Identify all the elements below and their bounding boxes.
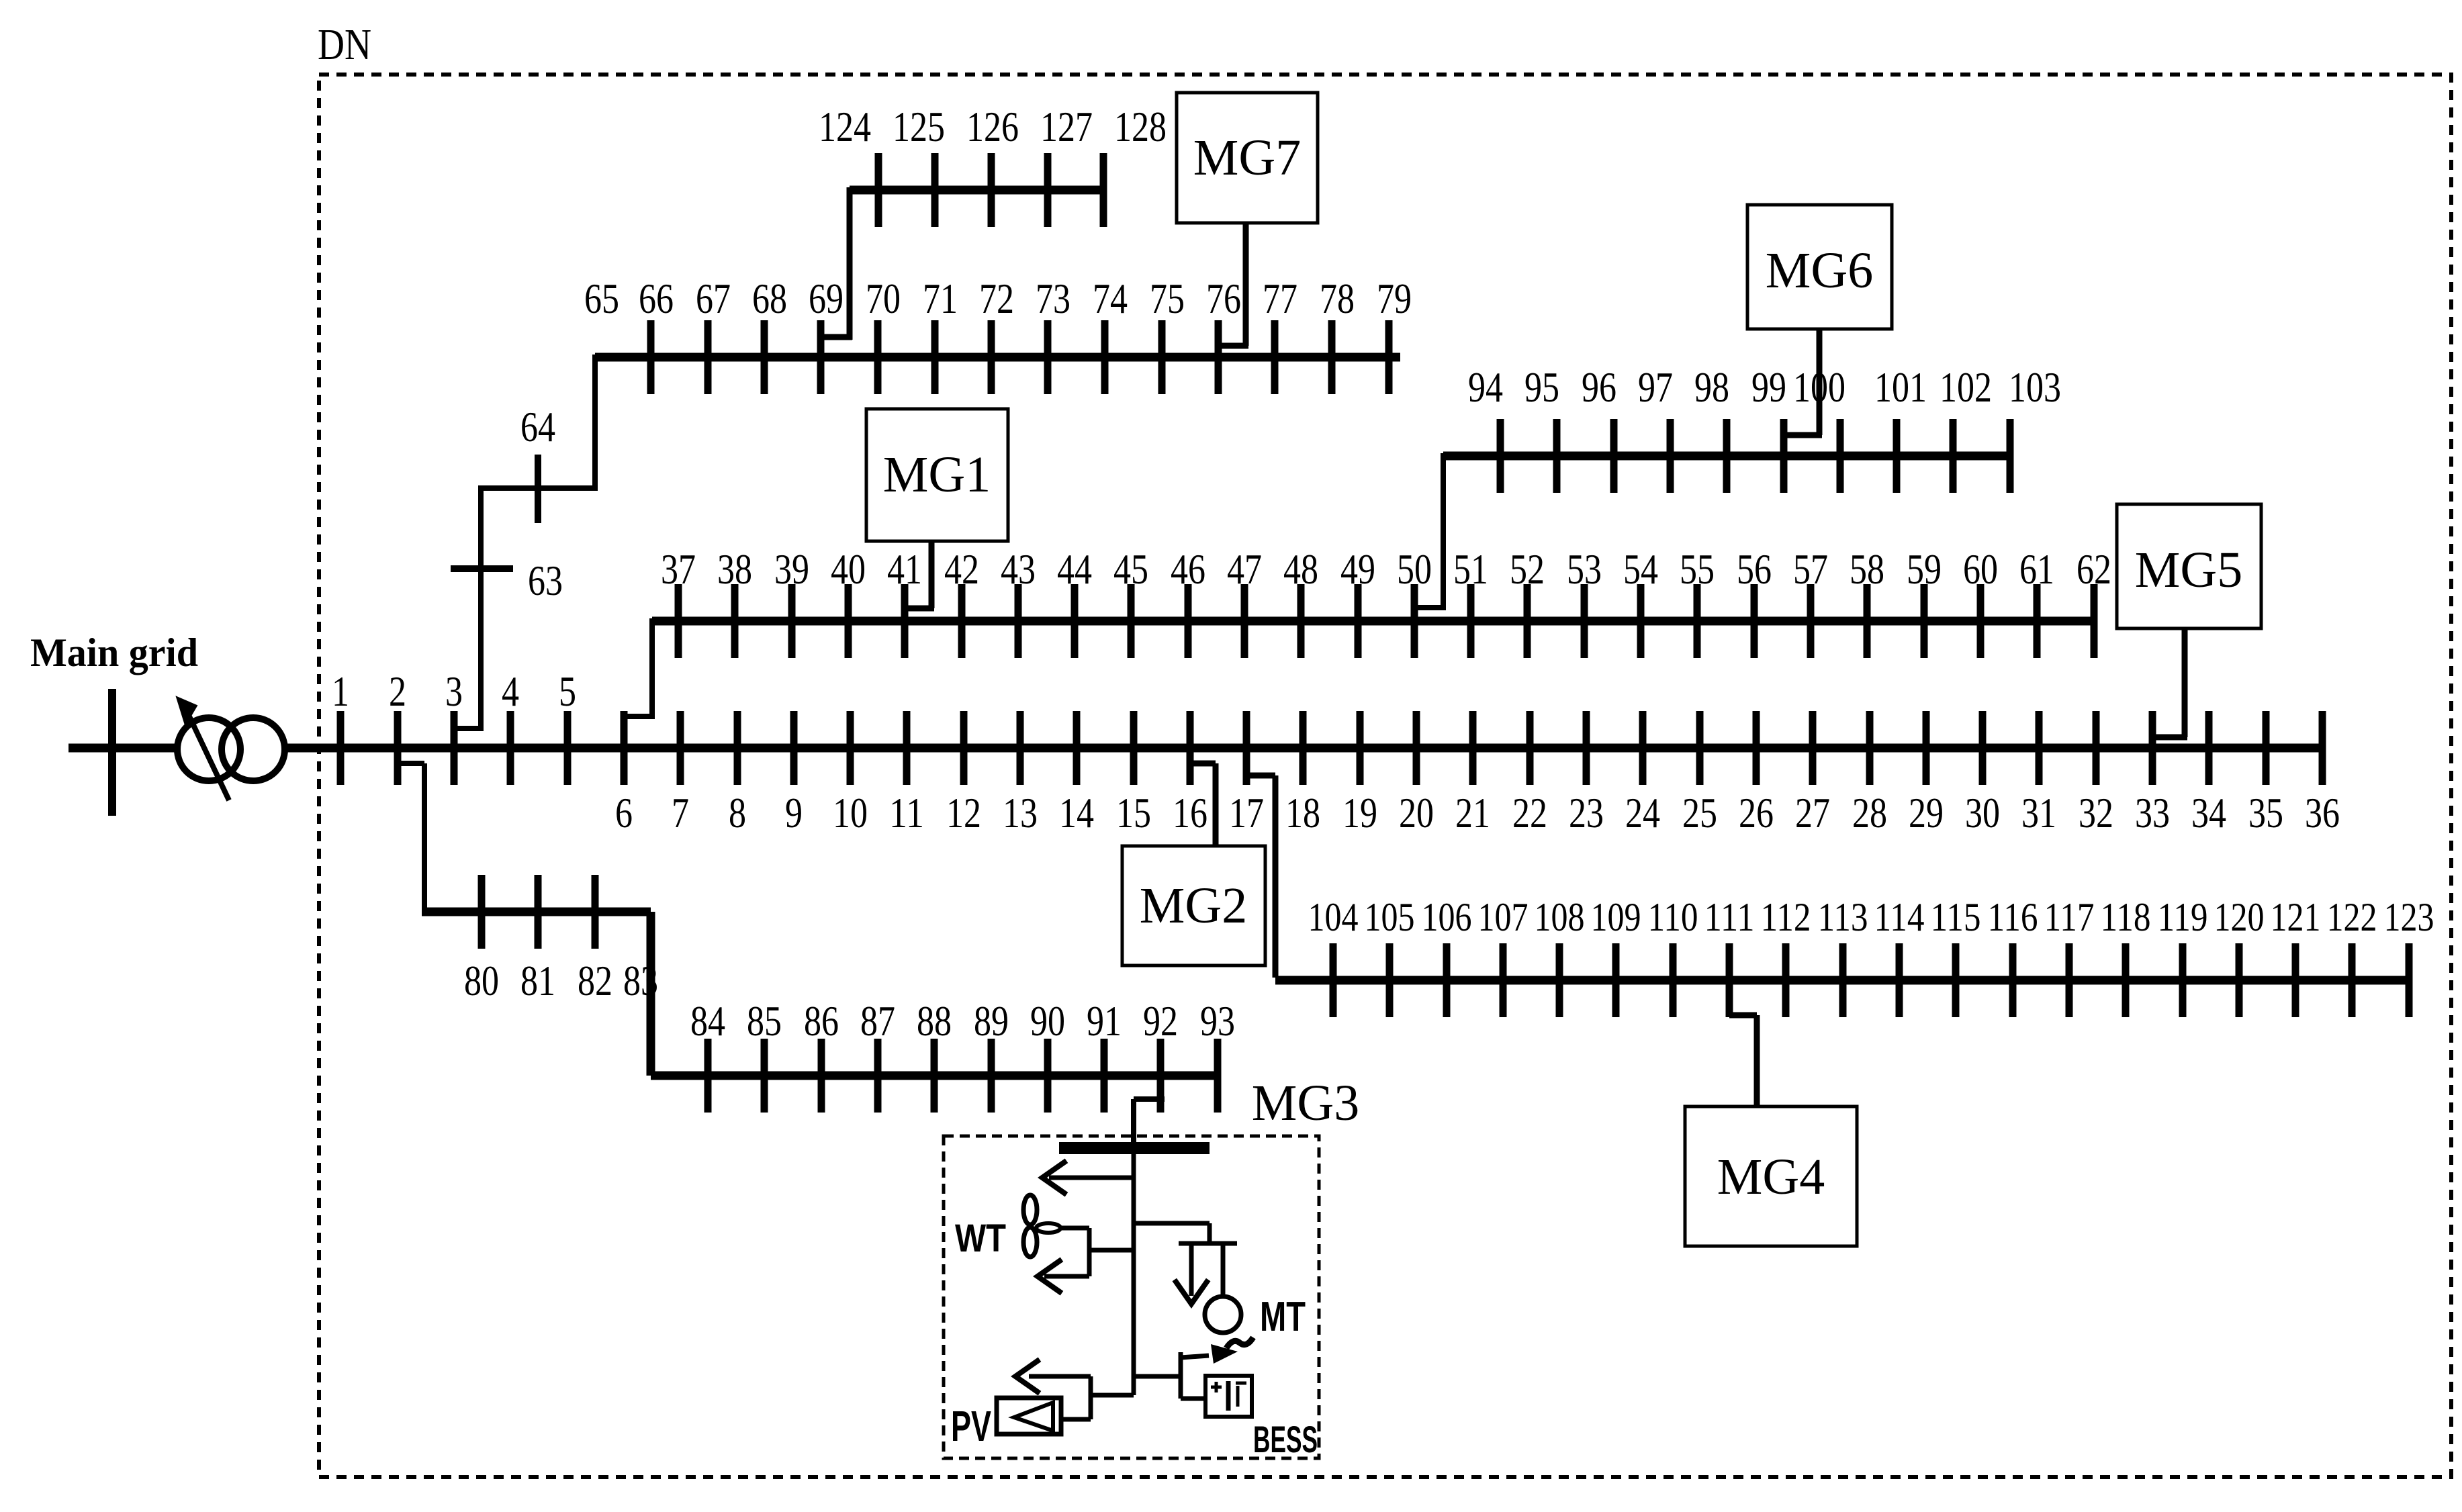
svg-text:27: 27 xyxy=(1795,789,1830,837)
bus tick node 6 xyxy=(621,711,628,785)
svg-text:123: 123 xyxy=(2384,895,2434,939)
PV output arrow xyxy=(1029,1374,1091,1379)
bus tick node 81 xyxy=(535,875,542,949)
bus tick node 104 xyxy=(1330,943,1337,1017)
svg-text:MG5: MG5 xyxy=(2135,542,2242,598)
bus tick node 69 xyxy=(817,320,825,394)
bus tick node 88 xyxy=(931,1039,938,1113)
bus tick node 1 xyxy=(337,711,345,785)
bus tick node 52 xyxy=(1524,584,1531,658)
bus tick node 36 xyxy=(2319,711,2326,785)
bus tick node 50 xyxy=(1411,584,1418,658)
microgrid MG6 box xyxy=(1747,205,1892,329)
wire node 92 jog to MG3 drop xyxy=(1134,1096,1165,1102)
svg-text:65: 65 xyxy=(584,275,619,322)
svg-text:51: 51 xyxy=(1453,545,1488,593)
bus tick node 51 xyxy=(1467,584,1475,658)
svg-text:66: 66 xyxy=(639,275,674,322)
wire drop node 17 to bus 104 xyxy=(1273,775,1279,978)
MT branch tee bar xyxy=(1179,1241,1237,1246)
bus tick node 8 xyxy=(734,711,741,785)
wire feeder bus nodes 124-128 xyxy=(850,186,1103,195)
bus tick node 120 xyxy=(2236,943,2243,1017)
svg-text:25: 25 xyxy=(1682,789,1717,837)
bus tick node 112 xyxy=(1782,943,1790,1017)
bus tick node 127 xyxy=(1044,153,1052,227)
bus tick node 76 xyxy=(1215,320,1222,394)
wire node 3 jog to riser xyxy=(454,726,481,731)
bus tick node 4 xyxy=(507,711,514,785)
bus tick node 103 xyxy=(2007,419,2014,493)
bus tick node 62 xyxy=(2091,584,2098,658)
wire node 50 jog to riser xyxy=(1413,605,1443,610)
bus tick node 40 xyxy=(845,584,852,658)
bus tick node 19 xyxy=(1357,711,1364,785)
bus tick node 128 xyxy=(1100,153,1107,227)
svg-text:43: 43 xyxy=(1001,545,1036,593)
wind turbine WT blades xyxy=(1023,1195,1037,1225)
bus tick node 45 xyxy=(1128,584,1135,658)
bus tick node 78 xyxy=(1328,320,1336,394)
bus tick node 30 xyxy=(1979,711,1987,785)
svg-text:103: 103 xyxy=(2009,363,2061,411)
svg-text:61: 61 xyxy=(2019,545,2054,593)
svg-text:23: 23 xyxy=(1569,789,1604,837)
svg-text:20: 20 xyxy=(1399,789,1434,837)
svg-text:97: 97 xyxy=(1638,363,1673,411)
bus tick node 13 xyxy=(1017,711,1024,785)
bus tick node 11 xyxy=(903,711,911,785)
bus tick node 115 xyxy=(1952,943,1960,1017)
svg-text:99: 99 xyxy=(1751,363,1786,411)
bus tick node 67 xyxy=(704,320,712,394)
wire feeder bus nodes 104-123 xyxy=(1275,976,2409,985)
svg-text:30: 30 xyxy=(1965,789,2000,837)
svg-text:60: 60 xyxy=(1963,545,1998,593)
svg-text:17: 17 xyxy=(1229,789,1264,837)
svg-text:MG6: MG6 xyxy=(1766,242,1873,299)
bus tick node 93 xyxy=(1214,1039,1222,1113)
svg-text:76: 76 xyxy=(1206,275,1241,322)
svg-text:53: 53 xyxy=(1567,545,1602,593)
bus tick node 121 xyxy=(2292,943,2299,1017)
svg-text:126: 126 xyxy=(966,103,1019,150)
bus tick node 5 xyxy=(564,711,572,785)
svg-text:24: 24 xyxy=(1625,789,1660,837)
microgrid MG5 box xyxy=(2117,504,2261,628)
svg-text:120: 120 xyxy=(2214,895,2265,939)
bus tick node 119 xyxy=(2179,943,2187,1017)
bus tick node 57 xyxy=(1807,584,1815,658)
wire feeder bus nodes 84-93 xyxy=(651,1072,1218,1080)
wire MG7 drop to node 76 xyxy=(1243,223,1249,346)
svg-text:MG3: MG3 xyxy=(1252,1075,1359,1131)
svg-text:91: 91 xyxy=(1087,997,1122,1045)
svg-text:96: 96 xyxy=(1582,363,1616,411)
svg-text:110: 110 xyxy=(1648,895,1698,939)
bus tick node 117 xyxy=(2066,943,2073,1017)
svg-text:11: 11 xyxy=(889,789,924,837)
svg-text:85: 85 xyxy=(747,997,782,1045)
svg-text:14: 14 xyxy=(1059,789,1094,837)
svg-text:15: 15 xyxy=(1116,789,1151,837)
bus tick node 66 xyxy=(647,320,655,394)
svg-text:63: 63 xyxy=(528,557,563,604)
svg-text:125: 125 xyxy=(893,103,945,150)
svg-text:4: 4 xyxy=(502,667,519,715)
svg-text:87: 87 xyxy=(860,997,895,1045)
wire main grid to transformer xyxy=(69,744,179,753)
svg-text:29: 29 xyxy=(1909,789,1944,837)
svg-text:DN: DN xyxy=(318,20,371,69)
svg-text:71: 71 xyxy=(923,275,958,322)
svg-text:22: 22 xyxy=(1512,789,1547,837)
wire WT corner vertical xyxy=(1087,1228,1092,1276)
svg-text:115: 115 xyxy=(1931,895,1981,939)
svg-text:48: 48 xyxy=(1283,545,1318,593)
svg-text:81: 81 xyxy=(520,957,555,1004)
wire main feeder bus nodes 3-36 xyxy=(454,744,2325,753)
svg-text:44: 44 xyxy=(1057,545,1092,593)
microturbine MT generator circle xyxy=(1205,1296,1241,1333)
svg-text:MT: MT xyxy=(1260,1294,1306,1340)
svg-text:2: 2 xyxy=(389,667,406,715)
wire PV box link xyxy=(1061,1417,1091,1422)
bus tick node 92 xyxy=(1157,1039,1165,1113)
bus tick node 90 xyxy=(1044,1039,1052,1113)
bus tick node 9 xyxy=(790,711,798,785)
bus tick node 2 xyxy=(394,711,402,785)
bus tick node 87 xyxy=(874,1039,882,1113)
svg-text:26: 26 xyxy=(1739,789,1774,837)
wire node 69 jog to riser of 124-128 lateral xyxy=(820,334,852,340)
svg-text:118: 118 xyxy=(2101,895,2151,939)
bus tick node 41 xyxy=(901,584,909,658)
main grid bus bar xyxy=(108,689,116,816)
svg-text:111: 111 xyxy=(1704,895,1755,939)
bus tick node 47 xyxy=(1241,584,1248,658)
bus tick node 105 xyxy=(1386,943,1394,1017)
bus tick node 34 xyxy=(2205,711,2213,785)
bus tick node 20 xyxy=(1413,711,1420,785)
svg-text:7: 7 xyxy=(672,789,689,837)
wire corner node 83 drop to bus 84 xyxy=(647,912,655,1076)
wire riser to 124-128 bus xyxy=(847,187,853,340)
svg-text:79: 79 xyxy=(1377,275,1412,322)
bus tick node 53 xyxy=(1581,584,1588,658)
svg-text:PV: PV xyxy=(951,1402,991,1450)
bus tick node 124 xyxy=(875,153,882,227)
wire riser node 6 to bus 37 xyxy=(649,618,655,719)
svg-text:BESS: BESS xyxy=(1253,1418,1318,1460)
svg-text:10: 10 xyxy=(833,789,868,837)
bus tick node 55 xyxy=(1694,584,1701,658)
svg-text:94: 94 xyxy=(1468,363,1503,411)
bus tick node 10 xyxy=(847,711,854,785)
svg-text:33: 33 xyxy=(2135,789,2170,837)
svg-text:19: 19 xyxy=(1342,789,1377,837)
bus tick node 101 xyxy=(1893,419,1901,493)
MT load arrow down xyxy=(1189,1243,1194,1296)
wire MG6 jog to node 100 tick xyxy=(1783,432,1822,438)
svg-text:107: 107 xyxy=(1478,895,1529,939)
svg-text:84: 84 xyxy=(690,997,725,1045)
bus tick node 95 xyxy=(1553,419,1561,493)
MG3 busbar xyxy=(1059,1142,1210,1154)
svg-text:49: 49 xyxy=(1340,545,1375,593)
bus tick node 85 xyxy=(761,1039,768,1113)
wire BESS riser xyxy=(1179,1352,1183,1399)
wire WT hub to corner xyxy=(1060,1226,1089,1231)
svg-text:64: 64 xyxy=(520,403,555,451)
wire node 6 jog to riser xyxy=(623,714,652,719)
svg-text:106: 106 xyxy=(1422,895,1472,939)
svg-text:MG1: MG1 xyxy=(883,446,991,503)
wire riser node 64 corner to bus 65 xyxy=(592,355,598,491)
svg-text:117: 117 xyxy=(2044,895,2095,939)
wire BESS riser to battery xyxy=(1181,1397,1205,1401)
bus tick node 102 xyxy=(1950,419,1957,493)
bus tick node 31 xyxy=(2036,711,2043,785)
svg-text:MG2: MG2 xyxy=(1140,878,1247,934)
svg-text:90: 90 xyxy=(1030,997,1065,1045)
transformer T1 regulation arrow xyxy=(188,714,229,800)
svg-text:68: 68 xyxy=(752,275,787,322)
svg-text:119: 119 xyxy=(2158,895,2208,939)
bus tick node 109 xyxy=(1612,943,1620,1017)
bus tick node 54 xyxy=(1637,584,1645,658)
bus tick node 96 xyxy=(1610,419,1618,493)
svg-text:105: 105 xyxy=(1365,895,1415,939)
microgrid MG3 dashed box xyxy=(944,1136,1319,1458)
bus tick node 118 xyxy=(2122,943,2130,1017)
battery plus sign xyxy=(1211,1386,1222,1389)
svg-text:54: 54 xyxy=(1623,545,1658,593)
bus tick node 17 xyxy=(1243,711,1250,785)
bus tick node 98 xyxy=(1723,419,1731,493)
svg-text:46: 46 xyxy=(1171,545,1205,593)
svg-text:47: 47 xyxy=(1227,545,1262,593)
transformer T1 secondary winding xyxy=(222,718,285,781)
bus tick node 46 xyxy=(1185,584,1192,658)
wire MG3 drop to busbar xyxy=(1131,1099,1136,1145)
bus tick node 7 xyxy=(677,711,684,785)
battery BESS box xyxy=(1205,1376,1252,1417)
svg-text:41: 41 xyxy=(887,545,922,593)
svg-text:35: 35 xyxy=(2248,789,2283,837)
bus tick node 33 xyxy=(2149,711,2156,785)
wire node 16 jog to MG2 drop xyxy=(1190,761,1216,767)
MG3 internal feeder line xyxy=(1132,1154,1136,1395)
bus tick node 12 xyxy=(960,711,968,785)
wire feeder bus nodes 94-103 xyxy=(1443,452,2010,461)
wire transformer to node 1 xyxy=(285,744,454,753)
bus tick node 37 xyxy=(675,584,682,658)
WT output arrow xyxy=(1044,1274,1089,1279)
bus tick node 43 xyxy=(1015,584,1022,658)
svg-text:116: 116 xyxy=(1988,895,2038,939)
svg-text:124: 124 xyxy=(819,103,871,150)
svg-text:13: 13 xyxy=(1003,789,1038,837)
bus tick node 28 xyxy=(1866,711,1874,785)
svg-text:12: 12 xyxy=(946,789,981,837)
wire feeder bus nodes 80-83 xyxy=(422,908,651,916)
bus tick node 59 xyxy=(1921,584,1928,658)
svg-text:55: 55 xyxy=(1680,545,1715,593)
bus tick node 126 xyxy=(988,153,995,227)
wire MG7 jog to node 76 tick xyxy=(1216,343,1248,349)
bus tick node 116 xyxy=(2009,943,2017,1017)
wire MG6 drop xyxy=(1817,329,1823,435)
wire riser node 50 to bus 94 xyxy=(1441,453,1446,610)
svg-text:75: 75 xyxy=(1150,275,1185,322)
wire node 17 jog to drop xyxy=(1246,773,1275,779)
svg-text:37: 37 xyxy=(661,545,696,593)
BESS converter arrow xyxy=(1181,1356,1209,1358)
bus tick node 100 xyxy=(1837,419,1844,493)
svg-text:34: 34 xyxy=(2191,789,2226,837)
svg-text:122: 122 xyxy=(2327,895,2377,939)
svg-text:74: 74 xyxy=(1093,275,1128,322)
bus tick node 24 xyxy=(1639,711,1647,785)
wire MG1 drop xyxy=(929,541,935,608)
microgrid MG4 box xyxy=(1685,1106,1857,1246)
svg-text:MG4: MG4 xyxy=(1717,1149,1825,1205)
svg-text:112: 112 xyxy=(1761,895,1811,939)
svg-text:101: 101 xyxy=(1874,363,1927,411)
svg-text:MG7: MG7 xyxy=(1193,130,1301,186)
svg-text:56: 56 xyxy=(1737,545,1772,593)
svg-text:77: 77 xyxy=(1263,275,1297,322)
wire MT branch drop xyxy=(1207,1223,1212,1243)
bus tick node 60 xyxy=(1977,584,1985,658)
svg-text:45: 45 xyxy=(1113,545,1148,593)
bus tick node 48 xyxy=(1297,584,1305,658)
svg-text:39: 39 xyxy=(774,545,809,593)
bus tick node 114 xyxy=(1896,943,1903,1017)
bus tick node 70 xyxy=(874,320,882,394)
wire node 2 jog to drop xyxy=(397,761,424,766)
svg-text:6: 6 xyxy=(615,789,633,837)
svg-text:36: 36 xyxy=(2305,789,2340,837)
svg-text:93: 93 xyxy=(1200,997,1235,1045)
wire MT generator drop xyxy=(1221,1243,1226,1296)
bus tick node 84 xyxy=(704,1039,712,1113)
bus tick node 80 xyxy=(478,875,486,949)
svg-text:18: 18 xyxy=(1285,789,1320,837)
svg-text:50: 50 xyxy=(1397,545,1432,593)
wire WT to feeder xyxy=(1089,1248,1134,1253)
photovoltaic PV box xyxy=(997,1398,1061,1434)
bus tick node 29 xyxy=(1923,711,1930,785)
BESS converter ac tilde xyxy=(1226,1337,1253,1348)
svg-text:70: 70 xyxy=(866,275,901,322)
bus tick node 3 xyxy=(451,711,458,785)
battery long plate xyxy=(1226,1381,1231,1411)
svg-text:31: 31 xyxy=(2021,789,2056,837)
bus tick node 22 xyxy=(1526,711,1534,785)
wire horizontal through node 64 xyxy=(478,485,595,491)
bus tick node 42 xyxy=(958,584,966,658)
bus tick node 99 xyxy=(1780,419,1788,493)
bus tick node 49 xyxy=(1355,584,1362,658)
svg-text:86: 86 xyxy=(804,997,839,1045)
svg-text:67: 67 xyxy=(696,275,731,322)
wire MG4 drop xyxy=(1754,1015,1760,1106)
bus tick node 125 xyxy=(931,153,939,227)
svg-text:127: 127 xyxy=(1040,103,1093,150)
wire feeder to MT branch xyxy=(1134,1221,1210,1226)
bus tick node 23 xyxy=(1583,711,1590,785)
bus tick node 61 xyxy=(2034,584,2041,658)
svg-text:89: 89 xyxy=(974,997,1009,1045)
wire riser node 3 to node 63 and corner xyxy=(478,485,484,731)
wire MG5 jog to node 33 tick xyxy=(2152,735,2187,741)
bus tick node 58 xyxy=(1864,584,1871,658)
bus tick node 94 xyxy=(1497,419,1504,493)
bus tick node 113 xyxy=(1839,943,1847,1017)
svg-text:58: 58 xyxy=(1850,545,1884,593)
bus tick node 14 xyxy=(1073,711,1081,785)
bus tick node 123 xyxy=(2406,943,2413,1017)
svg-text:114: 114 xyxy=(1874,895,1925,939)
svg-text:121: 121 xyxy=(2271,895,2321,939)
svg-text:1: 1 xyxy=(332,667,349,715)
svg-text:5: 5 xyxy=(559,667,576,715)
bus tick node 71 xyxy=(931,320,939,394)
svg-text:88: 88 xyxy=(917,997,952,1045)
bus tick node 21 xyxy=(1469,711,1477,785)
svg-text:95: 95 xyxy=(1524,363,1559,411)
wire MG5 drop xyxy=(2182,628,2188,737)
bus tick node 89 xyxy=(988,1039,995,1113)
bus tick node 35 xyxy=(2263,711,2270,785)
bus tick node 68 xyxy=(761,320,768,394)
wire PV to feeder xyxy=(1091,1393,1134,1398)
svg-text:102: 102 xyxy=(1940,363,1992,411)
wire MG2 drop xyxy=(1213,763,1219,846)
PV diode triangle xyxy=(1014,1403,1053,1431)
bus tick node 56 xyxy=(1751,584,1758,658)
bus tick node 74 xyxy=(1101,320,1109,394)
svg-text:69: 69 xyxy=(809,275,844,322)
bus tick node 108 xyxy=(1556,943,1563,1017)
microgrid MG7 box xyxy=(1177,93,1318,223)
svg-text:98: 98 xyxy=(1694,363,1729,411)
bus tick node 39 xyxy=(788,584,796,658)
svg-text:82: 82 xyxy=(578,957,612,1004)
svg-text:40: 40 xyxy=(831,545,866,593)
bus tick node 107 xyxy=(1500,943,1507,1017)
bus tick node 64 xyxy=(535,455,541,523)
MG3 load arrow xyxy=(1049,1176,1134,1180)
bus tick node 77 xyxy=(1271,320,1279,394)
svg-text:57: 57 xyxy=(1793,545,1828,593)
wire feeder bus nodes 37-62 xyxy=(652,617,2097,626)
svg-text:72: 72 xyxy=(979,275,1014,322)
wire node 111 jog to MG4 drop xyxy=(1729,1012,1757,1019)
svg-text:38: 38 xyxy=(717,545,752,593)
svg-text:32: 32 xyxy=(2079,789,2113,837)
microgrid MG2 box xyxy=(1122,846,1265,965)
bus tick node 82 xyxy=(592,875,599,949)
bus tick node 111 xyxy=(1726,943,1733,1017)
svg-text:92: 92 xyxy=(1143,997,1178,1045)
svg-text:104: 104 xyxy=(1308,895,1359,939)
svg-text:16: 16 xyxy=(1173,789,1207,837)
svg-text:21: 21 xyxy=(1455,789,1490,837)
bus tick node 110 xyxy=(1670,943,1677,1017)
